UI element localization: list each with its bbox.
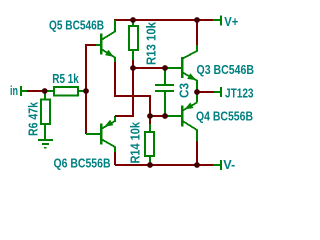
svg-text:C3: C3: [177, 83, 192, 98]
junction in/R6/R5: [42, 88, 48, 94]
resistor R5 pin stub left: [45, 90, 54, 92]
junction top rail R13: [130, 17, 136, 23]
transistor Q6: [101, 116, 115, 152]
wire JT123 output: [197, 91, 214, 93]
svg-text:R5 1k: R5 1k: [52, 71, 79, 86]
wire Q4 base green stub: [165, 115, 181, 117]
wire Q6 base green stub: [86, 133, 100, 135]
resistor R14 pin stub bottom: [149, 156, 151, 165]
port V- tick: [220, 160, 222, 170]
wire Q6 emitter up to node A: [115, 68, 133, 116]
wire bottom rail V-: [115, 164, 213, 166]
wire bottom rail green stub to V- pin: [213, 164, 221, 166]
wire top rail V+: [114, 19, 213, 21]
resistor R14 pin stub top maroon: [149, 113, 151, 124]
resistor R6 pin stub top: [44, 91, 46, 100]
svg-text:R6 47k: R6 47k: [25, 101, 40, 136]
label R13 10k: [144, 21, 159, 65]
svg-text:V-: V-: [223, 157, 235, 172]
wire Q4 collector to bottom rail: [196, 141, 198, 165]
junction node B Q5e/R14: [147, 113, 153, 119]
transistor Q3: [182, 45, 197, 92]
capacitor C3: [155, 85, 174, 91]
wire node A horizontal: [133, 67, 165, 69]
label R6 47k: [25, 101, 40, 136]
resistor R13 pin stub top: [132, 20, 134, 26]
wire R13 bottom to node A dot: [132, 60, 134, 68]
svg-text:Q3 BC546B: Q3 BC546B: [197, 62, 255, 77]
transistor Q5 emitter arrow: [105, 50, 114, 57]
svg-text:R14 10k: R14 10k: [128, 121, 143, 163]
capacitor C3 lead top: [164, 68, 166, 84]
wire Q6 collector to bottom rail: [114, 152, 116, 165]
port JT123 tick: [220, 87, 222, 97]
wire top rail green stub to V+ pin: [213, 19, 221, 21]
transistor Q4: [182, 92, 197, 141]
resistor R13: [129, 26, 138, 50]
junction node B C3/Q4 base: [162, 113, 168, 119]
junction JT123 node: [194, 89, 200, 95]
label C3: [177, 83, 192, 98]
wire Q5 emitter to node B (crosses node A column): [115, 62, 150, 113]
svg-text:Q5 BC546B: Q5 BC546B: [49, 18, 104, 33]
svg-text:in: in: [10, 83, 18, 98]
wire in green stub: [22, 90, 27, 92]
resistor R14: [145, 132, 154, 156]
junction top rail Q3 collector: [194, 17, 200, 23]
label R14 10k: [128, 121, 143, 163]
junction R5/Q5 base/Q6 base: [83, 88, 89, 94]
wire Q5 base green stub: [96, 44, 100, 46]
resistor R6: [41, 100, 50, 125]
junction bottom rail Q4 collector: [194, 162, 200, 168]
resistor R14 pin stub top green: [149, 124, 151, 132]
wire node B horizontal: [150, 115, 165, 117]
transistor Q5: [101, 20, 115, 62]
ground: [38, 140, 53, 148]
resistor R5 pin stub right: [78, 90, 86, 92]
wire JT123 green stub: [214, 91, 221, 93]
transistor Q3 emitter arrow: [187, 73, 196, 80]
transistor Q6 emitter arrow: [104, 120, 113, 127]
capacitor C3 lead bottom: [164, 92, 166, 116]
port in tick: [20, 86, 22, 96]
svg-text:JT123: JT123: [225, 86, 254, 101]
transistor Q4 emitter arrow: [185, 103, 194, 110]
svg-text:R13 10k: R13 10k: [144, 21, 159, 65]
wire Q3 collector to top rail: [196, 20, 198, 45]
port V+ tick: [220, 16, 222, 26]
wire base column x86: [86, 45, 96, 134]
resistor R6 pin stub bottom: [44, 124, 46, 140]
svg-text:Q6 BC556B: Q6 BC556B: [54, 156, 111, 171]
svg-text:V+: V+: [224, 14, 238, 29]
junction node A C3/Q3 base: [162, 65, 168, 71]
junction node A R13/Q6e: [130, 65, 136, 71]
resistor R5: [54, 87, 78, 96]
svg-text:Q4 BC556B: Q4 BC556B: [196, 108, 253, 123]
junction bottom rail R14: [147, 162, 153, 168]
wire in to R6/R5 node: [27, 90, 45, 92]
resistor R13 pin stub bottom: [132, 50, 134, 60]
wire Q3 base green stub: [165, 67, 181, 69]
